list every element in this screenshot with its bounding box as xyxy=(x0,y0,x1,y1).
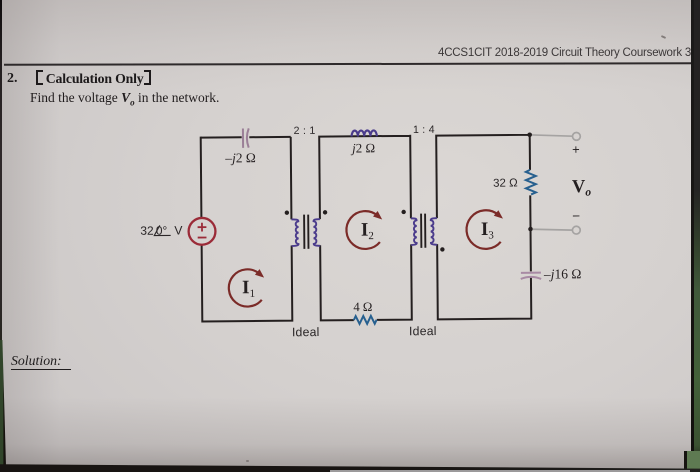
svg-text:–j16 Ω: –j16 Ω xyxy=(543,266,582,281)
svg-text:Ideal: Ideal xyxy=(292,325,320,339)
svg-text:−: − xyxy=(572,208,580,223)
svg-text:V: V xyxy=(174,223,183,237)
svg-text:I1: I1 xyxy=(242,277,255,300)
svg-text:Vo: Vo xyxy=(572,177,592,199)
svg-text:–j2 Ω: –j2 Ω xyxy=(224,150,256,165)
svg-text:I2: I2 xyxy=(361,220,374,243)
svg-text:I3: I3 xyxy=(481,219,495,242)
svg-text:j2 Ω: j2 Ω xyxy=(350,140,375,155)
svg-text:32 Ω: 32 Ω xyxy=(493,177,518,189)
svg-text:1 : 4: 1 : 4 xyxy=(413,124,435,136)
svg-text:32: 32 xyxy=(140,224,154,238)
svg-text:Ideal: Ideal xyxy=(409,324,437,338)
svg-text:+: + xyxy=(572,142,580,157)
svg-text:4 Ω: 4 Ω xyxy=(353,300,372,314)
svg-text:2 : 1: 2 : 1 xyxy=(294,125,316,137)
